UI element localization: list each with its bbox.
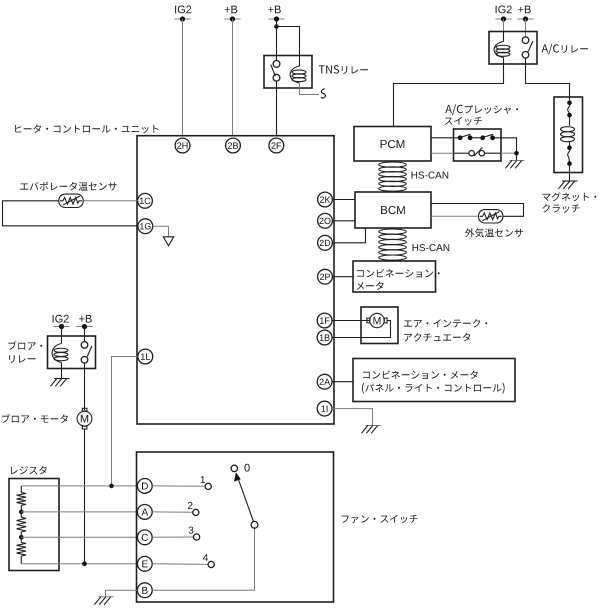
pin 2D bbox=[318, 235, 333, 250]
IC U: PCM box bbox=[354, 127, 431, 162]
net label +B (blower relay) bbox=[79, 315, 92, 323]
label マグネット・ (magnet-) bbox=[542, 192, 596, 201]
pin 1G bbox=[138, 219, 153, 234]
label blower relay line2 bbox=[9, 355, 35, 363]
net label IG2 (top left) bbox=[175, 6, 191, 14]
wire IG2 to pin 2H bbox=[182, 19, 184, 136]
resistor R bottom bbox=[17, 542, 26, 556]
pin D bbox=[137, 479, 152, 494]
label クラッチ (clutch) bbox=[542, 204, 579, 213]
wire A/C relay switch to magnet clutch bbox=[526, 58, 570, 97]
wire BCM to outside air temp sensor bbox=[431, 204, 524, 217]
pressure switch lower contacts bbox=[454, 152, 469, 154]
wire pin 1F to actuator motor bbox=[332, 320, 370, 322]
pin 1I bbox=[317, 401, 332, 416]
ground triangle (1G) bbox=[163, 237, 173, 246]
wire pin 1G to ground bbox=[153, 226, 169, 237]
blower relay coil bbox=[61, 336, 63, 344]
label HS-CAN lower bbox=[413, 244, 450, 251]
label エバポレータ温センサ (evaporator temp sensor) bbox=[20, 182, 116, 191]
wire E line bbox=[21, 563, 137, 565]
TNS relay switch contacts bbox=[273, 61, 280, 68]
thermistor: outside air temp sensor bbox=[479, 210, 503, 223]
wire IG2 to A/C relay coil bbox=[503, 19, 505, 32]
wire D to contact 1 bbox=[152, 485, 205, 487]
resistor chain top lead bbox=[20, 486, 22, 493]
wire A to contact 2 bbox=[152, 511, 193, 513]
ground (pressure switch) bbox=[509, 160, 524, 162]
wire pin 2A to combination meter bbox=[332, 381, 353, 383]
power terminal IG2 blower bbox=[54, 326, 70, 328]
wire B to chassis ground bbox=[106, 590, 138, 597]
pin A bbox=[137, 505, 152, 520]
label combination meter line1 bbox=[357, 269, 440, 278]
label combination meter line2 bbox=[357, 282, 384, 290]
ground (magnet clutch) bbox=[562, 180, 577, 182]
label 外気温センサ (outside air temp sensor) bbox=[465, 228, 523, 237]
label ブロア・モータ (blower motor) bbox=[2, 414, 68, 423]
power terminal IG2 A/C bbox=[496, 18, 512, 20]
net label +B (top middle) bbox=[225, 6, 238, 14]
label A/C pressure switch line2 bbox=[445, 117, 482, 125]
wire +B down to TNS relay switch bbox=[276, 19, 278, 61]
thermistor: evaporator temp sensor bbox=[59, 194, 83, 207]
pin 2A bbox=[317, 374, 332, 389]
pin 1B bbox=[317, 330, 332, 345]
contact 2 bbox=[193, 509, 199, 515]
wire pin 1B to actuator motor bbox=[332, 321, 391, 338]
wire TNS switch to pin 2F bbox=[276, 81, 278, 136]
wire A/C relay coil to PCM bbox=[394, 64, 504, 127]
wire blower relay switch to motor bbox=[84, 363, 86, 410]
net label IG2 (blower relay) bbox=[53, 315, 69, 323]
wire pin 2P to combination meter bbox=[332, 276, 353, 278]
power terminal +B blower bbox=[77, 326, 93, 328]
IC: heater control unit main box bbox=[137, 136, 334, 424]
label combination meter panel line1 bbox=[363, 370, 478, 379]
TNS relay coil bbox=[299, 56, 301, 67]
junction at pressure switch ground bbox=[514, 151, 519, 156]
label PCM bbox=[381, 140, 405, 148]
label blower relay line1 bbox=[8, 341, 42, 350]
label BCM bbox=[381, 206, 405, 214]
pin C bbox=[137, 530, 152, 545]
relay: blower relay box bbox=[48, 336, 96, 369]
wire R1-R2 junction bbox=[20, 505, 22, 517]
pin 1L bbox=[138, 349, 153, 364]
pin 2H bbox=[175, 138, 190, 153]
relay TNS: box bbox=[264, 56, 312, 89]
wire +B to pin 2B bbox=[232, 19, 234, 136]
actuator: air intake actuator box bbox=[361, 307, 398, 344]
wire branch to TNS coil bbox=[277, 27, 300, 56]
junction +B branch bbox=[274, 24, 279, 29]
junction blower motor on E line bbox=[82, 562, 87, 567]
pin 1C bbox=[138, 193, 153, 208]
pin 2K bbox=[318, 192, 333, 207]
wire pin 1I to ground bbox=[332, 409, 373, 426]
switch rotor arm with arrow bbox=[238, 478, 254, 522]
net label +B (A/C relay) bbox=[518, 6, 531, 14]
wire D line bbox=[21, 485, 137, 487]
wire pin 2D to BCM bbox=[332, 228, 365, 243]
label combination meter panel line2 bbox=[362, 383, 505, 394]
wire pressure switch to ground bbox=[501, 138, 517, 161]
twisted pair HS-CAN (BCM-combination meter) bbox=[379, 229, 407, 234]
motor M: blower motor bbox=[82, 408, 87, 411]
wire R2-R3 junction bbox=[20, 532, 22, 543]
net label IG2 (A/C relay) bbox=[496, 6, 512, 14]
pin 2F bbox=[269, 138, 284, 153]
contact 4 bbox=[208, 561, 214, 567]
power terminal +B A/C bbox=[518, 18, 534, 20]
wire C to contact 3 bbox=[152, 536, 193, 538]
wire pin 1L to fan switch D line bbox=[112, 357, 138, 486]
wire evaporator sensor loop to pin 1G bbox=[3, 201, 138, 226]
resistor R middle bbox=[17, 517, 26, 532]
net label +B (TNS feed) bbox=[268, 6, 281, 14]
wire magnet clutch to ground bbox=[569, 164, 571, 181]
label ファン・スイッチ (fan switch) bbox=[342, 515, 418, 524]
wire B to rotor pivot bbox=[152, 528, 254, 590]
pin 2P bbox=[318, 269, 333, 284]
pressure switch upper contacts bbox=[454, 137, 461, 139]
wire TNS coil output with continuation squiggle bbox=[300, 83, 320, 95]
relay A/C: box bbox=[489, 32, 537, 65]
label air intake line2 bbox=[404, 333, 470, 341]
label ヒータ・コントロール・ユニット (heater control unit) bbox=[15, 125, 158, 134]
ground (pin 1I) bbox=[365, 425, 380, 427]
wire pin 2O to BCM bbox=[332, 220, 355, 222]
pin B bbox=[137, 583, 152, 598]
label TNSリレー (TNS relay) bbox=[319, 65, 368, 74]
wire PCM to pressure switch (upper) bbox=[431, 137, 454, 139]
power terminal IG2 bbox=[175, 18, 191, 20]
wire A line bbox=[21, 511, 137, 513]
wire IG2 to blower relay coil bbox=[61, 327, 63, 337]
pin 1F bbox=[317, 313, 332, 328]
label HS-CAN upper bbox=[412, 172, 449, 179]
ground (blower relay) bbox=[54, 378, 69, 380]
contact 0 bbox=[231, 465, 237, 471]
contact 1 bbox=[205, 483, 211, 489]
pin 2O bbox=[318, 213, 333, 228]
wire blower motor to resistor E line bbox=[84, 429, 86, 564]
A/C relay switch contacts bbox=[522, 37, 529, 44]
wire PCM to pressure switch (lower) bbox=[431, 152, 454, 154]
resistor block box bbox=[9, 479, 59, 571]
ground (fan switch B) bbox=[98, 596, 113, 598]
power terminal +B bbox=[225, 18, 241, 20]
label A/C pressure switch line1 bbox=[445, 104, 518, 115]
wire C line bbox=[21, 536, 137, 538]
rotor pivot contact bbox=[251, 521, 258, 528]
power terminal +B TNS bbox=[269, 18, 285, 20]
magnet clutch slip contacts and coil bbox=[569, 97, 571, 103]
solenoid: magnet clutch box bbox=[554, 97, 583, 173]
IC: BCM box bbox=[355, 192, 431, 228]
pin 2B bbox=[226, 138, 241, 153]
junction 1L on D line bbox=[109, 484, 114, 489]
pin E bbox=[137, 556, 152, 571]
wire E to contact 4 bbox=[152, 563, 208, 566]
wire pin 1C to evaporator sensor bbox=[83, 200, 137, 202]
twisted pair HS-CAN (PCM-BCM) bbox=[379, 162, 407, 167]
A/C relay coil bbox=[494, 42, 503, 58]
resistor R top bbox=[17, 493, 26, 506]
label レジスタ (resistor) bbox=[11, 466, 47, 474]
unit: combination meter (panel light control) box bbox=[353, 359, 515, 402]
motor M: air intake actuator bbox=[367, 318, 370, 323]
contact 3 bbox=[194, 534, 200, 540]
wire +B to blower relay switch bbox=[84, 327, 86, 342]
blower relay switch contacts bbox=[81, 342, 88, 349]
switch: A/C pressure switch box bbox=[454, 129, 502, 161]
label air intake line1 bbox=[404, 319, 488, 327]
resistor chain bottom lead bbox=[20, 556, 22, 564]
unit: combination meter box bbox=[353, 261, 436, 292]
switch: fan switch box bbox=[137, 452, 334, 602]
label A/Cリレー (A/C relay) bbox=[542, 44, 588, 55]
wire pin 2K to BCM bbox=[332, 199, 355, 201]
wire +B to A/C relay switch bbox=[525, 19, 527, 37]
